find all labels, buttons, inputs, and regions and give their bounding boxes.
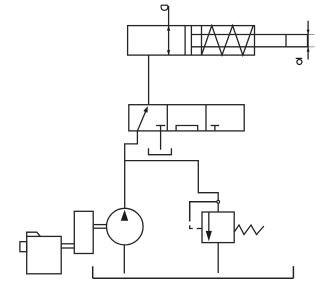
valve blocked port T left [156,126,165,150]
valve flow arrow [137,106,147,131]
wire relief outlet [217,243,219,273]
pump triangle [121,210,128,221]
motor tab [27,232,41,236]
tank symbol under valve [149,148,172,155]
pilot line solid part [190,202,217,222]
directional valve body [129,105,244,131]
shaft motor to coupling [61,244,74,248]
piston [185,26,191,55]
label D [161,5,168,10]
wire pump suction [123,245,125,274]
dimension d lines [307,21,315,60]
valve blocked port T right [211,126,220,131]
motor terminal [20,242,27,252]
wire cylinder port to valve [148,55,150,105]
tank line [93,266,294,278]
relief valve internal arrow [206,212,212,241]
relief valve box [202,212,234,243]
cylinder barrel [128,26,255,55]
pilot line dashes [190,225,202,228]
shaft coupling to pump [93,225,106,229]
wire branch to relief valve [125,161,219,202]
label d [296,58,303,64]
wire junction to relief inlet [217,202,219,212]
return spring [202,26,254,55]
relief valve spring [234,225,264,235]
motor box [27,236,62,273]
valve centre position bridge [176,126,198,131]
node junction [217,200,220,203]
dimension D line [167,6,170,55]
coupling [74,211,93,253]
pump [107,208,144,245]
piston rod [191,35,307,47]
wire valve P port to pump riser [125,131,138,209]
